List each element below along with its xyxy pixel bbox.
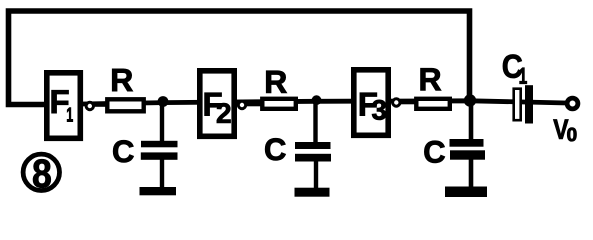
Vo label	[553, 120, 576, 142]
F1 output terminal circle	[86, 102, 93, 109]
main signal wire	[82, 101, 567, 104]
resistor R (third)	[416, 68, 450, 109]
ground (first)	[140, 187, 177, 195]
wire: junction 3 down to capacitor C (third)	[469, 100, 474, 141]
wire: F2 output to resistor R2	[247, 102, 263, 107]
resistor R (second)	[262, 71, 296, 109]
ground (third)	[445, 187, 487, 198]
wire: F1 output to resistor R1	[94, 102, 107, 107]
F3 output terminal circle	[393, 99, 400, 106]
node junction 3 (output node, feedback tap)	[464, 94, 476, 106]
wire: junction 1 down to capacitor C (first)	[160, 101, 164, 143]
output terminal Vo circle	[567, 98, 578, 109]
capacitor C (third, shunt)	[424, 139, 485, 163]
ground (second)	[295, 188, 330, 197]
capacitor C (first, shunt)	[113, 140, 177, 162]
node junction 1	[158, 96, 169, 107]
capacitor C (second, shunt)	[265, 138, 331, 161]
wire: capacitor C (third) to ground	[469, 158, 474, 189]
capacitor C1 (series output coupling)	[503, 55, 533, 124]
block F3	[354, 70, 388, 136]
wire: junction 2 down to capacitor C (second)	[313, 100, 317, 144]
wire: F3 output to resistor R3	[401, 100, 417, 105]
resistor R (first)	[107, 69, 143, 111]
node junction 2	[312, 95, 322, 105]
block F1	[47, 73, 81, 139]
figure number 8 (circled)	[23, 154, 59, 190]
block F2	[200, 71, 234, 137]
wire: capacitor C (second) to ground	[314, 160, 318, 190]
F2 output terminal circle	[238, 101, 245, 108]
feedback wire (from output node over the top back to F1 input)	[9, 11, 470, 105]
wire: capacitor C (first) to ground	[160, 158, 164, 189]
